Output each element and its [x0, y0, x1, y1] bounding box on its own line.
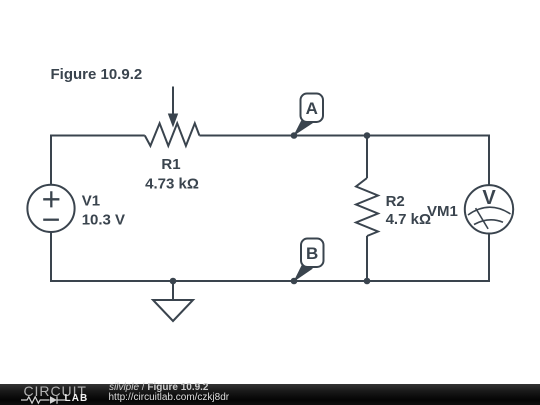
svg-text:10.3 V: 10.3 V: [82, 211, 125, 228]
voltage source V1: [27, 185, 74, 232]
node B junction dot: [291, 278, 298, 285]
node B label: [293, 239, 323, 283]
wire R2 top junction to voltmeter top: [367, 136, 489, 186]
svg-text:4.7 kΩ: 4.7 kΩ: [386, 211, 431, 228]
svg-text:B: B: [306, 244, 318, 263]
wire R1 right terminal to node A: [199, 135, 294, 137]
wire node B to ground junction: [173, 280, 294, 282]
svg-text:4.73 kΩ: 4.73 kΩ: [145, 176, 199, 193]
svg-text:V1: V1: [82, 193, 100, 210]
wire voltmeter bottom to R2 bottom junction: [367, 234, 489, 282]
resistor R1 (rheostat zigzag): [145, 123, 200, 146]
resistor R2 (vertical zigzag): [356, 178, 378, 236]
svg-text:Figure 10.9.2: Figure 10.9.2: [51, 66, 143, 83]
svg-text:A: A: [306, 99, 318, 118]
voltmeter VM1: [465, 185, 513, 233]
footer bar: [0, 384, 540, 405]
svg-text:R1: R1: [161, 156, 180, 173]
wire R2 top stub: [366, 136, 368, 179]
svg-text:VM1: VM1: [427, 203, 458, 220]
footer credit line: [109, 383, 209, 393]
svg-text:V: V: [482, 187, 496, 209]
ground junction dot: [170, 278, 177, 285]
wire R2 bottom stub: [366, 236, 368, 281]
node A label: [293, 94, 323, 137]
CircuitLab logo word LAB: [65, 394, 89, 404]
svg-text:R2: R2: [386, 193, 405, 210]
R1 wiper arrow: [168, 87, 178, 128]
wire ground junction to V1 bottom: [51, 232, 173, 281]
wire R2 bottom junction to node B: [294, 280, 367, 282]
CircuitLab logo resistor-diode glyph: [21, 395, 65, 405]
wire top-left (V1 top to R1 left terminal): [51, 136, 145, 185]
junction dot at R2 bottom: [364, 278, 371, 285]
wire node A to R2 top junction: [294, 135, 367, 137]
junction dot at R2 top: [364, 132, 371, 139]
node A junction dot: [291, 132, 298, 139]
footer url line: [109, 393, 230, 403]
CircuitLab logo word CIRCUIT: [24, 384, 87, 398]
ground: [153, 281, 193, 321]
